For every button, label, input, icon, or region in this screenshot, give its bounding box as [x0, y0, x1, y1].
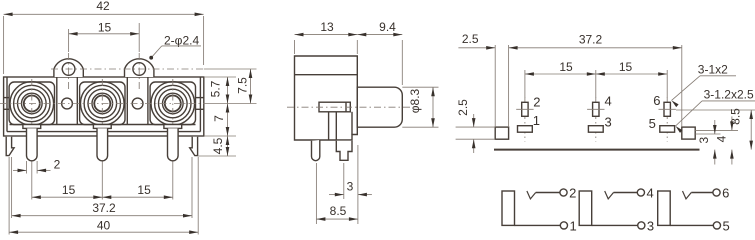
front left ground leg [6, 137, 14, 156]
svg-text:3-1.2x2.5: 3-1.2x2.5 [704, 88, 754, 102]
svg-text:13: 13 [320, 20, 334, 34]
dim 2.5 top shaft [458, 47, 495, 49]
pad column 2 centerline [595, 98, 597, 142]
svg-text:9.4: 9.4 [379, 20, 396, 34]
dim 2 left extension [26, 161, 28, 174]
svg-text:15: 15 [137, 183, 151, 197]
front inner shelf line [10, 124, 196, 126]
dim 15 15 layout line [525, 73, 667, 75]
svg-text:1: 1 [570, 218, 577, 233]
pad 5 (1.2x2.5 slot) [660, 126, 675, 133]
dim 3 left extension side [343, 163, 345, 199]
schematic terminal 5 [713, 222, 720, 229]
jack 3 vertical centerline [172, 79, 174, 166]
ext pad6 row right [676, 109, 755, 111]
right edge notch bottom [196, 108, 204, 110]
dim 3 lower tail [714, 150, 716, 165]
jack 1 circle r14.3 [18, 89, 47, 118]
jack 3 foot bar [164, 125, 182, 129]
dim 37.2 right extension [191, 157, 193, 218]
ext col2 up [595, 70, 597, 98]
pad 4 crosshair [587, 108, 604, 110]
svg-text:15: 15 [559, 60, 573, 74]
svg-text:3: 3 [347, 180, 354, 194]
ext pad row right (4) [695, 129, 738, 131]
dim 42 right extension [203, 16, 205, 65]
schematic jack 1 body [502, 191, 515, 225]
jack 2 circle r14.3 [88, 89, 117, 118]
schematic switch contact 6 [683, 191, 692, 199]
dim 13 right extension [356, 40, 358, 54]
mounting hole 1 vertical centerline [68, 53, 70, 91]
jack 1 inner circle [24, 96, 40, 112]
svg-text:3: 3 [697, 137, 711, 144]
ext jack center right [208, 103, 257, 105]
jack 3 center pin [168, 128, 179, 160]
svg-text:4: 4 [647, 185, 654, 200]
mounting hole 1 (phi2.4) [62, 63, 75, 76]
dim 9.4 line [357, 34, 402, 36]
schematic wire to pin 1 [515, 224, 561, 226]
side interior line b [335, 112, 337, 140]
jack 2 circle r18.2 [84, 85, 120, 121]
dim 15 top line [69, 33, 140, 35]
divider 1 keyhole circle [62, 98, 73, 109]
svg-text:4: 4 [715, 135, 729, 142]
ext body top right [204, 76, 236, 78]
divider 1 right wall [76, 77, 78, 125]
ext hole center right [204, 68, 257, 70]
pad 6 crosshair [659, 108, 676, 110]
svg-text:5: 5 [649, 116, 656, 131]
svg-text:40: 40 [97, 219, 111, 233]
jack 2 circle r10.3 [92, 93, 113, 114]
front view horizontal centerline [0, 103, 208, 105]
pad 2 crosshair [516, 108, 533, 110]
dim 37.2 line [12, 215, 192, 217]
jack 2 frame [80, 82, 125, 125]
ext pin5 bottom [172, 163, 174, 200]
jack 3 inner circle [165, 96, 181, 112]
dim phi8.3 top extension [402, 86, 438, 88]
label 3-1x2 leader [672, 76, 701, 101]
schematic wire to pin 4 [614, 192, 638, 194]
side view horizontal centerline [287, 106, 411, 108]
dim 15 top right extension [138, 23, 140, 52]
front body inner wall left [6, 77, 8, 132]
dim 15 15 bottom line [32, 196, 173, 198]
dim 37.2 left extension [11, 157, 13, 218]
jack 2 inner circle [94, 96, 110, 112]
schematic wire to pin 6 [691, 192, 713, 194]
label 3-1.2x2.5 leader [676, 101, 703, 126]
dim 4 lower tail [731, 150, 733, 165]
dim 42 line [4, 13, 204, 15]
side pin divider [345, 102, 347, 112]
jack 3 circle r21.8 [151, 82, 195, 126]
jack 3 frame [150, 82, 195, 125]
svg-text:15: 15 [62, 183, 76, 197]
dim 3 upper tail [714, 120, 716, 134]
svg-text:2.5: 2.5 [462, 32, 479, 46]
schematic switch contact 4 [605, 191, 614, 199]
mounting hole 2 vertical centerline [138, 53, 140, 91]
svg-text:6: 6 [653, 93, 660, 108]
dim 2 right extension [36, 161, 38, 174]
svg-text:2-φ2.4: 2-φ2.4 [164, 33, 199, 47]
schematic terminal 1 [560, 222, 567, 229]
schematic switch contact 2 [527, 191, 536, 199]
svg-text:3: 3 [647, 218, 654, 233]
jack 3 circle r18.2 [155, 85, 191, 121]
svg-text:4: 4 [605, 94, 612, 109]
right square hole 2.5x2.5 [682, 127, 695, 139]
ext body right edge down [357, 145, 359, 224]
jack 2 center pin [97, 128, 108, 160]
dim 3 right shaft [358, 194, 372, 196]
left edge notch bottom [4, 108, 10, 110]
jack 1 circle r10.3 [22, 93, 43, 114]
jack 1 vertical centerline [31, 79, 33, 166]
jack 2 circle r21.8 [81, 82, 125, 126]
svg-text:42: 42 [96, 0, 110, 13]
ext col3 up [666, 70, 668, 98]
dim 40 left extension [8, 157, 10, 235]
dim 40 right extension [197, 157, 199, 235]
dim 8.5 left extension side [315, 163, 317, 224]
mounting bump 2 [125, 59, 154, 77]
pad 3 (1.2x2.5 slot) [588, 126, 603, 133]
label 2-phi2.4 underline [162, 45, 201, 47]
divider 2 left wall [126, 77, 128, 125]
dim 7.5 line [250, 69, 252, 104]
dim 42 left extension [3, 16, 5, 74]
jack 2 vertical centerline [101, 79, 103, 166]
svg-text:φ8.3: φ8.3 [408, 88, 422, 113]
pad 4 (1x2 slot) [593, 102, 599, 116]
dim 2 right shaft [37, 169, 50, 171]
schematic terminal 3 [638, 222, 645, 229]
divider 2 keyhole circle [132, 98, 143, 109]
ext right sq left edge up [681, 45, 683, 127]
svg-text:37.2: 37.2 [579, 32, 603, 46]
svg-text:7.5: 7.5 [236, 77, 250, 94]
svg-text:8.5: 8.5 [330, 204, 347, 218]
jack 1 frame [9, 82, 54, 125]
label 3-1x2 underline [700, 75, 736, 77]
jack 1 circle r21.8 [10, 82, 54, 126]
svg-text:5: 5 [723, 218, 730, 233]
dim 9.4 right extension [401, 40, 403, 85]
side view body outline [295, 56, 358, 140]
dim 37.2 layout line [509, 47, 682, 49]
side rear leg stepped [336, 141, 352, 161]
svg-text:3-1x2: 3-1x2 [698, 63, 728, 77]
dim 40 line [9, 231, 198, 233]
mounting hole 2 (phi2.4) [133, 63, 146, 76]
ext left sq left edge up [494, 45, 496, 127]
ext left sq right edge up [508, 45, 510, 127]
ext pin1 bottom [31, 163, 33, 200]
label 2-phi2.4 leader [151, 46, 162, 58]
svg-text:2: 2 [533, 95, 540, 110]
front right ground leg [190, 137, 198, 156]
side front pin rounded [312, 140, 320, 161]
pad 1 (1.2x2.5 slot) [518, 126, 533, 133]
ext body bottom right [204, 135, 236, 137]
front body inner wall right [199, 77, 201, 132]
jack 3 circle r10.3 [163, 93, 184, 114]
ext leg bottom right [198, 155, 237, 157]
svg-text:15: 15 [619, 60, 633, 74]
dim 2 left shaft [13, 169, 27, 171]
divider 1 left wall [56, 77, 58, 125]
svg-text:7: 7 [212, 115, 226, 122]
mounting bump 1 [54, 59, 83, 77]
dim 2.5 left upper tail [473, 114, 475, 127]
dim 2.5 left lower tail [473, 139, 475, 153]
schematic wire to pin 3 [592, 224, 638, 226]
svg-text:4.5: 4.5 [211, 137, 225, 154]
pad 2 (1x2 slot) [522, 102, 528, 116]
side interior line c [351, 112, 353, 135]
pad 6 (1x2 slot) [664, 102, 670, 116]
schematic jack 3 body [658, 191, 671, 225]
left edge notch top [4, 97, 10, 99]
svg-text:1: 1 [533, 113, 540, 128]
ext col1 up [524, 70, 526, 98]
svg-text:2: 2 [569, 185, 576, 200]
ext sq top left [456, 126, 496, 128]
side view barrel (jack) [357, 87, 402, 127]
dim 4 upper tail [731, 116, 733, 130]
front view body outline [4, 77, 204, 136]
dim phi8.3 line [432, 87, 434, 127]
dim 3 left shaft [329, 194, 344, 196]
jack 1 foot bar [23, 125, 41, 129]
dim 8.5 line side [316, 218, 358, 220]
dim chain line right [227, 77, 229, 156]
jack 1 circle r18.2 [14, 85, 50, 121]
schematic terminal 2 [560, 189, 567, 196]
divider 2 right wall [147, 77, 149, 125]
dim 15 top left extension [68, 29, 70, 52]
jack 3 circle r14.3 [159, 89, 188, 118]
schematic jack 2 body [579, 191, 592, 225]
svg-text:15: 15 [98, 21, 112, 35]
ext pin3 bottom [101, 163, 103, 200]
svg-text:6: 6 [722, 185, 729, 200]
side body ledge line [295, 74, 358, 76]
pad column 1 centerline [524, 98, 526, 142]
side interior line a [328, 112, 330, 140]
label 3-1.2x2.5 underline [702, 100, 755, 102]
side center pin rect [319, 102, 350, 112]
dim 8.5 layout line [750, 110, 752, 150]
jack 1 center pin [27, 128, 38, 160]
schematic wire to pin 2 [536, 192, 560, 194]
pcb edge line [494, 149, 700, 151]
jack 2 foot bar [93, 125, 111, 129]
dim 13 line [295, 34, 358, 36]
svg-text:5.7: 5.7 [209, 80, 223, 97]
schematic terminal 4 [637, 189, 644, 196]
svg-text:2.5: 2.5 [456, 99, 470, 116]
right edge notch top [196, 97, 204, 99]
ext sq center right (3) [695, 133, 720, 135]
svg-text:2: 2 [54, 158, 61, 172]
mounting holes horizontal centerline [51, 68, 204, 70]
dim phi8.3 bottom extension [402, 126, 438, 128]
svg-text:3: 3 [605, 115, 612, 130]
dim 13 left extension [294, 40, 296, 54]
left square hole 2.5x2.5 [495, 127, 508, 139]
ext sq bottom left [456, 138, 496, 140]
front body inner bottom line [7, 131, 200, 133]
schematic terminal 6 [713, 189, 720, 196]
svg-text:37.2: 37.2 [92, 201, 116, 215]
pad column 3 centerline [666, 98, 668, 142]
schematic wire to pin 5 [670, 224, 713, 226]
